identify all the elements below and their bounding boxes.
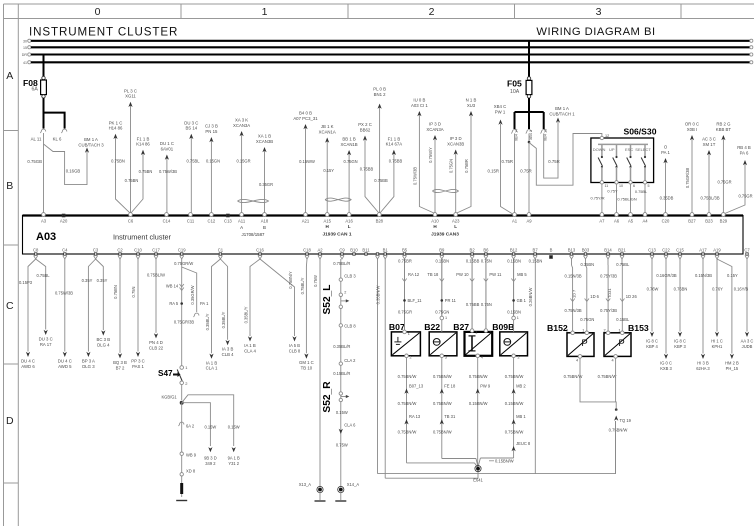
svg-text:A03 CI 1: A03 CI 1 (411, 103, 428, 108)
svg-text:TD31: TD31 (607, 288, 612, 298)
svg-text:0.75W/3B: 0.75W/3B (55, 291, 73, 296)
svg-text:JB 1 K: JB 1 K (321, 124, 334, 129)
svg-text:0.75BB: 0.75BB (374, 178, 388, 183)
svg-text:TQ 19: TQ 19 (620, 418, 632, 423)
svg-text:0.16GB: 0.16GB (66, 169, 81, 174)
svg-text:BS 14: BS 14 (185, 126, 197, 131)
svg-text:349 2: 349 2 (205, 461, 216, 466)
svg-text:0.75Y/3B: 0.75Y/3B (600, 308, 617, 313)
svg-text:PX 2 C: PX 2 C (358, 122, 372, 127)
svg-text:B21: B21 (618, 248, 626, 253)
svg-text:1: 1 (475, 331, 477, 335)
svg-text:3: 3 (445, 356, 447, 360)
svg-text:0.35GR/W: 0.35GR/W (190, 285, 195, 304)
svg-text:PL 3 C: PL 3 C (124, 88, 137, 93)
svg-text:B7 2: B7 2 (116, 365, 125, 370)
svg-text:XCAN3B: XCAN3B (447, 141, 464, 146)
svg-text:CLB 8: CLB 8 (289, 348, 301, 353)
svg-text:C12: C12 (208, 219, 216, 224)
svg-text:C: C (6, 300, 14, 312)
svg-text:DU 4 C: DU 4 C (21, 359, 35, 364)
svg-text:C18: C18 (303, 248, 311, 253)
svg-text:0.15N/3B: 0.15N/3B (695, 273, 712, 278)
svg-text:B9: B9 (439, 248, 445, 253)
svg-text:C6: C6 (128, 219, 134, 224)
svg-text:L: L (348, 224, 351, 229)
svg-text:RB 4 B: RB 4 B (737, 145, 751, 150)
svg-text:BN1 2: BN1 2 (374, 92, 387, 97)
svg-text:9B 3 D: 9B 3 D (204, 456, 217, 461)
svg-text:5: 5 (648, 184, 650, 188)
svg-text:BM 1 A: BM 1 A (84, 137, 98, 142)
svg-text:B27: B27 (453, 322, 469, 332)
svg-text:0.75Y/3B: 0.75Y/3B (600, 274, 617, 279)
svg-text:0.75GR: 0.75GR (738, 194, 752, 199)
svg-text:6: 6 (633, 184, 635, 188)
svg-text:C9: C9 (339, 248, 345, 253)
svg-text:IU 0 B: IU 0 B (413, 98, 425, 103)
svg-text:A4: A4 (642, 219, 648, 224)
svg-text:B2: B2 (470, 248, 476, 253)
svg-text:1: 1 (408, 332, 410, 336)
svg-text:0.75BL: 0.75BL (37, 273, 51, 278)
svg-text:C14: C14 (163, 219, 171, 224)
svg-text:0.35BN/W: 0.35BN/W (376, 286, 381, 305)
svg-text:0.75BL: 0.75BL (616, 262, 630, 267)
svg-text:CLB 3: CLB 3 (344, 274, 356, 279)
svg-text:C10: C10 (134, 248, 142, 253)
svg-text:A21: A21 (302, 219, 310, 224)
svg-text:B14: B14 (604, 248, 612, 253)
svg-text:CLB 4: CLB 4 (222, 352, 235, 357)
svg-text:IG 8 C: IG 8 C (674, 339, 686, 344)
svg-text:C8: C8 (33, 248, 39, 253)
svg-text:CLA 4: CLA 4 (244, 348, 256, 353)
svg-text:0.75Y/R: 0.75Y/R (590, 196, 604, 201)
svg-text:0.75BR: 0.75BR (464, 159, 469, 173)
svg-text:0.35BN: 0.35BN (580, 262, 594, 267)
svg-text:C1: C1 (218, 248, 224, 253)
svg-text:A03: A03 (36, 231, 56, 243)
svg-text:0.76W: 0.76W (647, 287, 659, 292)
svg-text:1: 1 (582, 328, 584, 332)
svg-text:TB 18: TB 18 (427, 272, 439, 277)
svg-text:0.75BB: 0.75BB (466, 302, 480, 307)
svg-text:0.75BN: 0.75BN (113, 285, 118, 299)
svg-text:AC 3 C: AC 3 C (702, 137, 716, 142)
svg-text:0.75W: 0.75W (313, 275, 318, 287)
svg-text:0.15BL/R: 0.15BL/R (333, 371, 350, 376)
svg-text:0.75N/3B: 0.75N/3B (565, 308, 582, 313)
svg-text:IG 8 C: IG 8 C (646, 339, 658, 344)
svg-text:H14 86: H14 86 (109, 126, 123, 131)
svg-text:B11: B11 (362, 248, 370, 253)
svg-text:IA 5 B: IA 5 B (289, 343, 300, 348)
svg-text:0.15BN: 0.15BN (507, 310, 521, 315)
svg-text:A16: A16 (345, 219, 353, 224)
svg-text:4: 4 (576, 359, 578, 363)
svg-text:A7: A7 (599, 219, 605, 224)
svg-text:A3: A3 (41, 219, 47, 224)
svg-text:0.75BL/R: 0.75BL/R (333, 261, 350, 266)
svg-text:UP: UP (609, 147, 615, 152)
svg-text:B23: B23 (705, 219, 713, 224)
svg-text:C7: C7 (744, 248, 750, 253)
svg-text:JUDB: JUDB (742, 344, 753, 349)
svg-text:6A: 6A (32, 87, 39, 93)
svg-text:6A 2: 6A 2 (186, 424, 195, 429)
svg-text:L: L (454, 224, 457, 229)
svg-text:IG 0 C: IG 0 C (660, 361, 672, 366)
svg-text:10A: 10A (510, 89, 520, 95)
svg-text:XD 8: XD 8 (186, 469, 196, 474)
svg-text:9A 1 B: 9A 1 B (228, 456, 240, 461)
svg-text:D: D (6, 415, 14, 427)
svg-text:IA 3 B: IA 3 B (222, 347, 234, 352)
svg-text:1: 1 (445, 316, 447, 320)
svg-text:B09B: B09B (492, 322, 514, 332)
svg-text:1: 1 (517, 316, 519, 320)
svg-text:0.75GN: 0.75GN (449, 159, 454, 173)
svg-text:0.75BN/Y: 0.75BN/Y (288, 271, 293, 289)
svg-text:0.75GN: 0.75GN (580, 317, 594, 322)
svg-text:B: B (6, 180, 13, 192)
svg-text:0.75GN: 0.75GN (435, 310, 449, 315)
svg-text:0.75BN/W: 0.75BN/W (433, 401, 452, 406)
svg-text:0: 0 (95, 6, 101, 18)
svg-text:XB4 13: XB4 13 (544, 129, 548, 141)
svg-text:0.75BN: 0.75BN (111, 159, 125, 164)
svg-text:0.75N: 0.75N (481, 259, 492, 264)
svg-text:0.15BN/W: 0.15BN/W (469, 401, 488, 406)
svg-text:CLA 6: CLA 6 (344, 423, 356, 428)
svg-text:DU 1 C: DU 1 C (160, 141, 174, 146)
svg-text:DLG 4: DLG 4 (97, 343, 110, 348)
svg-text:XG11: XG11 (125, 94, 136, 99)
svg-text:KBB BT: KBB BT (716, 127, 732, 132)
svg-text:BB 1 B: BB 1 B (342, 137, 356, 142)
svg-text:0.75GR: 0.75GR (398, 310, 412, 315)
svg-text:PN 4 D: PN 4 D (149, 340, 163, 345)
svg-text:B28: B28 (376, 219, 384, 224)
svg-text:RA 17: RA 17 (40, 342, 52, 347)
svg-text:TB 10: TB 10 (301, 366, 313, 371)
svg-text:A10: A10 (431, 219, 439, 224)
svg-text:C15: C15 (676, 248, 684, 253)
svg-text:CLA 2: CLA 2 (344, 358, 356, 363)
svg-text:PA 6: PA 6 (740, 150, 749, 155)
svg-text:F1 1 B: F1 1 B (388, 136, 401, 141)
svg-text:IA 1 B: IA 1 B (206, 360, 218, 365)
svg-text:0.15BN: 0.15BN (435, 259, 449, 264)
svg-text:B07: B07 (389, 322, 405, 332)
svg-text:0.75BN: 0.75BN (139, 169, 153, 174)
svg-text:0.75BN: 0.75BN (125, 178, 139, 183)
svg-text:B6: B6 (483, 248, 489, 253)
svg-text:1D 6: 1D 6 (590, 294, 599, 299)
svg-text:2: 2 (429, 6, 435, 18)
svg-text:AA 3 C: AA 3 C (741, 339, 754, 344)
svg-text:F1 1 B: F1 1 B (137, 136, 150, 141)
svg-text:C11: C11 (187, 219, 195, 224)
svg-text:41: 41 (23, 61, 27, 65)
svg-text:RA 5: RA 5 (169, 301, 179, 306)
svg-text:PK 1 C: PK 1 C (109, 120, 123, 125)
svg-text:WB 14: WB 14 (166, 284, 179, 289)
svg-text:B03: B03 (582, 248, 590, 253)
svg-text:0.75BN/W: 0.75BN/W (469, 374, 488, 379)
svg-text:0.75N: 0.75N (481, 302, 492, 307)
svg-text:PW 11: PW 11 (489, 272, 502, 277)
svg-text:DU 3 C: DU 3 C (39, 337, 53, 342)
svg-text:CLB 8: CLB 8 (344, 324, 356, 329)
svg-text:C4: C4 (62, 248, 68, 253)
svg-text:AWD 6: AWD 6 (21, 364, 35, 369)
svg-text:CUB/TACH 1: CUB/TACH 1 (549, 111, 575, 116)
svg-text:0.15GR: 0.15GR (236, 159, 250, 164)
svg-text:XM 1T: XM 1T (703, 142, 716, 147)
svg-text:PAS 1: PAS 1 (132, 364, 144, 369)
svg-text:0.15GN: 0.15GN (206, 159, 220, 164)
svg-text:4: 4 (481, 356, 483, 360)
svg-text:XA 1 B: XA 1 B (258, 134, 271, 139)
svg-text:0.16Y/B: 0.16Y/B (734, 287, 749, 292)
svg-text:X0B I: X0B I (687, 127, 698, 132)
svg-text:P: P (618, 338, 624, 349)
svg-text:0.26BN/W: 0.26BN/W (528, 288, 533, 307)
svg-text:WIRING DIAGRAM BI: WIRING DIAGRAM BI (536, 26, 655, 38)
svg-text:X14_A: X14_A (347, 482, 360, 487)
svg-text:0.75BL/W: 0.75BL/W (147, 273, 165, 278)
svg-text:BLF_11: BLF_11 (408, 298, 423, 303)
svg-text:0.75BN/W: 0.75BN/W (505, 374, 524, 379)
svg-text:2: 2 (489, 331, 491, 335)
svg-text:A: A (240, 225, 243, 230)
svg-text:1: 1 (262, 6, 268, 18)
svg-text:XCAN3A: XCAN3A (233, 123, 250, 128)
svg-text:B152: B152 (547, 323, 568, 333)
svg-text:CJ 3 B: CJ 3 B (205, 124, 218, 129)
svg-text:0.75BB: 0.75BB (360, 167, 374, 172)
svg-text:0.15BN/W: 0.15BN/W (495, 459, 514, 464)
svg-text:0.15Y: 0.15Y (727, 273, 738, 278)
svg-text:0.35BL/Y: 0.35BL/Y (244, 306, 249, 323)
svg-text:BM 1 A: BM 1 A (555, 106, 569, 111)
svg-text:P: P (581, 338, 587, 349)
svg-text:WB 9: WB 9 (186, 453, 197, 458)
svg-text:HI 1 C: HI 1 C (711, 339, 723, 344)
svg-text:XA 3 K: XA 3 K (235, 118, 248, 123)
svg-text:A: A (6, 70, 13, 82)
svg-text:IP 3 D: IP 3 D (429, 122, 441, 127)
svg-text:DU 4 C: DU 4 C (58, 359, 72, 364)
svg-text:OR 0 C: OR 0 C (685, 122, 699, 127)
svg-text:C2: C2 (117, 248, 123, 253)
svg-text:0.35BL/Y: 0.35BL/Y (205, 313, 210, 330)
svg-text:0.75GR/3B: 0.75GR/3B (685, 168, 690, 189)
svg-text:INSTRUMENT CLUSTER: INSTRUMENT CLUSTER (29, 26, 178, 39)
svg-text:HI 3 B: HI 3 B (697, 361, 709, 366)
svg-text:2: 2 (410, 356, 412, 360)
svg-text:B7: B7 (533, 248, 539, 253)
svg-text:1: 1 (618, 328, 620, 332)
svg-text:0.15N/3B: 0.15N/3B (565, 274, 582, 279)
svg-text:BC 3 B: BC 3 B (96, 337, 110, 342)
svg-text:0.75BL/3B: 0.75BL/3B (700, 196, 719, 201)
svg-text:0.15P3: 0.15P3 (19, 280, 33, 285)
svg-text:PP 3 C: PP 3 C (131, 359, 145, 364)
svg-text:TB 31: TB 31 (444, 414, 456, 419)
svg-text:0.75GR/W: 0.75GR/W (174, 261, 193, 266)
svg-text:B5: B5 (402, 248, 408, 253)
svg-text:B153: B153 (628, 323, 649, 333)
svg-text:A2: A2 (317, 248, 323, 253)
svg-text:0.16GR/3B: 0.16GR/3B (656, 273, 677, 278)
svg-text:E641: E641 (473, 478, 483, 483)
svg-text:DU 3 C: DU 3 C (184, 120, 198, 125)
svg-text:J1708/1587: J1708/1587 (242, 232, 266, 237)
svg-text:1D 26: 1D 26 (626, 294, 638, 299)
svg-text:0.75W: 0.75W (336, 443, 348, 448)
svg-text:0.75Y: 0.75Y (607, 189, 618, 194)
svg-text:DLG 3: DLG 3 (82, 364, 95, 369)
svg-text:0.35BL/R: 0.35BL/R (333, 344, 350, 349)
svg-text:CLA 1: CLA 1 (206, 366, 218, 371)
svg-text:12: 12 (605, 134, 609, 138)
svg-text:A5: A5 (628, 219, 634, 224)
svg-text:C20: C20 (662, 219, 670, 224)
svg-text:0.75BN/W: 0.75BN/W (398, 430, 417, 435)
svg-text:XCAN1B: XCAN1B (340, 142, 357, 147)
svg-text:KPH1: KPH1 (712, 344, 723, 349)
svg-text:0.15WW: 0.15WW (299, 159, 315, 164)
svg-text:2: 2 (566, 328, 568, 332)
svg-text:4: 4 (612, 359, 614, 363)
svg-text:0.76BN: 0.76BN (674, 287, 688, 292)
svg-text:A19: A19 (713, 248, 721, 253)
svg-text:0.75BL/Y: 0.75BL/Y (300, 277, 305, 294)
svg-text:RB 2 G: RB 2 G (716, 122, 731, 127)
svg-text:C13: C13 (648, 248, 656, 253)
svg-text:0.75GN: 0.75GN (344, 159, 358, 164)
svg-text:A1: A1 (512, 219, 518, 224)
svg-text:K14 67A: K14 67A (386, 142, 403, 147)
svg-text:B10: B10 (350, 248, 358, 253)
svg-text:DOWN: DOWN (593, 147, 606, 152)
svg-text:S47: S47 (158, 369, 173, 378)
svg-text:2: 2 (518, 356, 520, 360)
svg-text:XB4 C: XB4 C (494, 104, 506, 109)
svg-text:AL 11: AL 11 (31, 137, 42, 142)
svg-text:PH_15: PH_15 (726, 366, 739, 371)
svg-text:0.75BL: 0.75BL (187, 159, 201, 164)
svg-text:PA 1: PA 1 (661, 150, 670, 155)
svg-text:0.35Y: 0.35Y (82, 278, 93, 283)
svg-text:A15: A15 (323, 219, 331, 224)
svg-text:0.15W: 0.15W (228, 425, 240, 430)
svg-text:0.75R: 0.75R (520, 169, 531, 174)
svg-text:IP 3 D: IP 3 D (450, 136, 462, 141)
svg-text:0.75BN/W: 0.75BN/W (598, 374, 617, 379)
svg-text:C3: C3 (93, 248, 99, 253)
svg-text:2: 2 (344, 291, 346, 295)
svg-text:KXB 3: KXB 3 (660, 366, 672, 371)
svg-text:J1939 CAN 1: J1939 CAN 1 (322, 232, 351, 238)
svg-text:0.75BN/W: 0.75BN/W (398, 374, 417, 379)
svg-text:PN 15: PN 15 (205, 129, 218, 134)
svg-text:1D 7: 1D 7 (572, 290, 577, 298)
svg-text:B27: B27 (688, 219, 696, 224)
svg-text:6AV01: 6AV01 (161, 146, 174, 151)
svg-text:0.75BN/W: 0.75BN/W (609, 428, 628, 433)
svg-text:0.75BN/W: 0.75BN/W (398, 401, 417, 406)
svg-text:Instrument cluster: Instrument cluster (113, 233, 172, 242)
svg-text:MB 2: MB 2 (516, 384, 526, 389)
svg-text:C17: C17 (152, 248, 160, 253)
svg-text:KL 6: KL 6 (53, 137, 62, 142)
svg-text:XB4 14: XB4 14 (515, 129, 519, 141)
svg-text:PW 1: PW 1 (495, 109, 506, 114)
svg-text:3: 3 (596, 6, 602, 18)
svg-text:0.75BN/W: 0.75BN/W (433, 374, 452, 379)
svg-text:0.35DB: 0.35DB (660, 196, 674, 201)
svg-text:0.75BB: 0.75BB (389, 159, 403, 164)
svg-text:A11: A11 (238, 219, 246, 224)
svg-text:B13: B13 (568, 248, 576, 253)
svg-text:SELECT: SELECT (635, 147, 651, 152)
svg-text:BB62: BB62 (360, 127, 371, 132)
svg-text:GB 1: GB 1 (517, 298, 527, 303)
svg-text:0.75GB: 0.75GB (27, 159, 42, 164)
svg-text:30: 30 (23, 39, 27, 43)
svg-text:XU3: XU3 (467, 103, 476, 108)
svg-text:0.75W/3B: 0.75W/3B (159, 169, 177, 174)
svg-text:B1: B1 (383, 248, 389, 253)
svg-text:0.75GR/3B: 0.75GR/3B (174, 320, 195, 325)
svg-text:PR 11: PR 11 (445, 298, 457, 303)
svg-text:0.35BL/Y: 0.35BL/Y (221, 311, 226, 328)
svg-text:K14 86: K14 86 (136, 142, 150, 147)
svg-text:B: B (263, 225, 266, 230)
svg-text:0.75BN/W: 0.75BN/W (505, 430, 524, 435)
svg-text:0.35GR: 0.35GR (259, 182, 273, 187)
svg-text:RA 12: RA 12 (408, 272, 420, 277)
svg-text:PL 0 B: PL 0 B (373, 87, 386, 92)
svg-text:S52_L: S52_L (322, 284, 333, 314)
svg-text:KBP 3: KBP 3 (674, 344, 686, 349)
svg-text:RA 13: RA 13 (409, 414, 421, 419)
svg-text:AWD 5: AWD 5 (58, 364, 72, 369)
svg-text:BP 3 A: BP 3 A (82, 359, 95, 364)
svg-text:X13_A: X13_A (299, 482, 312, 487)
svg-text:0.75GR: 0.75GR (717, 180, 731, 185)
svg-text:0.75N: 0.75N (131, 287, 136, 298)
svg-text:A20: A20 (60, 219, 68, 224)
svg-text:DR: DR (22, 53, 28, 57)
svg-text:0.75BN/W: 0.75BN/W (433, 430, 452, 435)
svg-text:62HA 3: 62HA 3 (696, 366, 710, 371)
svg-text:HM 2 B: HM 2 B (725, 361, 739, 366)
svg-text:B4 0 B: B4 0 B (299, 111, 312, 116)
svg-text:XCAN3A: XCAN3A (426, 127, 443, 132)
svg-text:0.75W/Y: 0.75W/Y (428, 147, 433, 163)
svg-text:PW 10: PW 10 (456, 272, 469, 277)
svg-text:ESC: ESC (625, 147, 633, 152)
svg-text:FE 18: FE 18 (444, 384, 456, 389)
svg-text:CLB 22: CLB 22 (149, 345, 164, 350)
svg-text:S52_R: S52_R (322, 381, 333, 413)
svg-text:C13: C13 (224, 219, 232, 224)
